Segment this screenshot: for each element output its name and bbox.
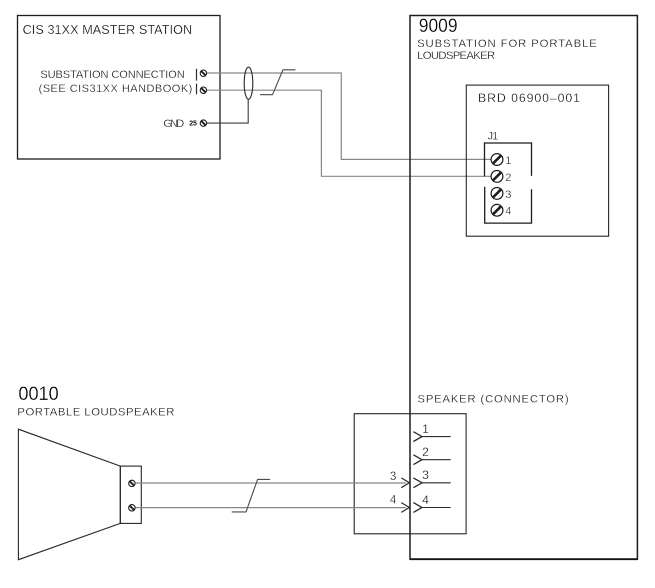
loudspeaker horn [18,429,120,560]
connector pin 1 [413,432,450,442]
svg-text:4: 4 [422,493,429,507]
box 9009 substation [410,16,637,560]
wire 1 master terminal A to J1 pin 1 [207,73,491,159]
box speaker connector [354,414,466,534]
svg-text:SPEAKER (CONNECTOR): SPEAKER (CONNECTOR) [418,394,569,406]
terminal J1 pin 1 [491,154,503,166]
svg-text:1: 1 [505,155,511,167]
wire arrow into pin 4 [401,503,409,513]
cable break slash upper [260,70,296,95]
svg-text:4: 4 [390,495,397,507]
svg-text:PORTABLE LOUDSPEAKER: PORTABLE LOUDSPEAKER [17,407,174,419]
svg-text:J1: J1 [488,130,499,142]
wire 2 master terminal B to J1 pin 2 [207,90,491,176]
connector J1 top bracket [485,143,532,177]
terminal speaker minus [129,505,135,511]
terminal J1 pin 2 [491,171,503,183]
separator bar at substation connection terminals [196,69,198,94]
connector pin 3 [413,478,450,488]
terminal J1 pin 4 [491,204,503,216]
cable shield ellipse [244,67,253,99]
svg-text:BRD 06900–001: BRD 06900–001 [478,91,580,105]
svg-text:4: 4 [505,206,511,218]
svg-text:1: 1 [422,422,429,436]
wire GND to cable shield [207,99,248,123]
wire arrow into pin 3 [401,478,409,488]
box U1 CIS 31XX master station [18,16,221,160]
svg-text:2: 2 [505,172,511,184]
terminal GND pin 25 [200,120,206,126]
svg-text:25: 25 [189,120,197,127]
svg-text:GND: GND [163,118,184,130]
terminal master pin A [200,70,206,76]
loudspeaker driver box [120,466,141,523]
svg-text:3: 3 [390,471,396,483]
svg-text:0010: 0010 [18,383,58,405]
cable break slash lower [232,479,270,512]
9009 box bottom edge emphasis [410,558,637,560]
box BRD 06900-001 [466,85,608,236]
svg-text:3: 3 [505,189,511,201]
wire speaker minus to connector pin 4 [135,507,406,509]
svg-text:SUBSTATION CONNECTION: SUBSTATION CONNECTION [40,69,184,81]
svg-text:9009: 9009 [419,15,458,37]
svg-text:(SEE CIS31XX HANDBOOK): (SEE CIS31XX HANDBOOK) [39,83,193,95]
svg-text:2: 2 [422,445,429,459]
terminal speaker plus [129,480,135,486]
wire speaker plus to connector pin 3 [135,482,406,484]
connector J1 bottom bracket [485,187,532,223]
connector pin 2 [413,455,450,465]
svg-text:LOUDSPEAKER: LOUDSPEAKER [417,50,495,62]
connector pin 4 [413,503,450,513]
terminal J1 pin 3 [491,188,503,200]
svg-text:SUBSTATION FOR PORTABLE: SUBSTATION FOR PORTABLE [417,38,597,50]
terminal master pin B [200,87,206,93]
svg-text:CIS 31XX MASTER STATION: CIS 31XX MASTER STATION [23,23,193,37]
svg-text:3: 3 [422,468,429,482]
